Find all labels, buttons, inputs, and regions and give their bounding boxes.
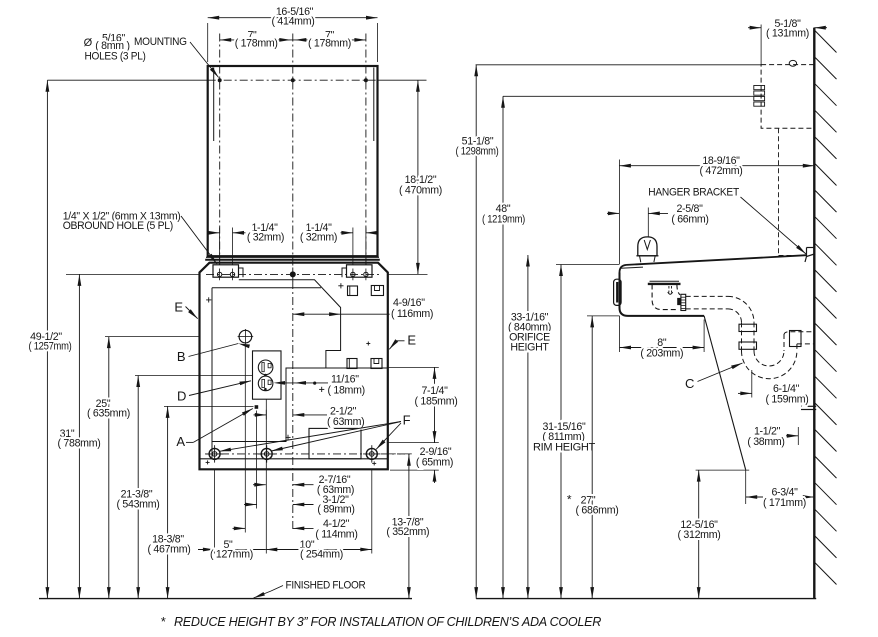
- svg-text:( 178mm): ( 178mm): [235, 38, 278, 50]
- extension lines 1-1/4 holes: [219, 228, 221, 265]
- svg-text:( 312mm): ( 312mm): [678, 529, 721, 541]
- anchor bolt centerline: [205, 453, 412, 455]
- svg-text:( 352mm): ( 352mm): [386, 526, 429, 538]
- knockout square upper-left: [348, 286, 358, 296]
- extension line outlet height: [135, 375, 253, 377]
- extension line cooler front up: [618, 160, 620, 265]
- hole B (water inlet): [239, 330, 252, 343]
- hanger bracket detail: [805, 254, 814, 262]
- extension line obround row right: [388, 273, 428, 275]
- svg-text:D: D: [177, 389, 186, 404]
- push pad: [614, 279, 622, 305]
- dimension 16-5/16in overall width: [208, 17, 378, 19]
- extension line 6-3/4: [745, 470, 747, 504]
- svg-text:( 63mm): ( 63mm): [327, 416, 364, 428]
- svg-text:REDUCE HEIGHT BY 3” FOR INSTAL: REDUCE HEIGHT BY 3” FOR INSTALLATION OF …: [174, 614, 601, 629]
- inner panel left line: [211, 288, 213, 459]
- dimension 7in right hole spacing: [293, 39, 366, 41]
- cooler cabinet (front view): [200, 263, 388, 470]
- svg-text:HOLES (3 PL): HOLES (3 PL): [85, 51, 146, 63]
- extension line hole B height: [105, 336, 200, 338]
- dimension 31-15/16in rim height: [560, 265, 562, 599]
- dimension 18-3/8in: [167, 406, 169, 598]
- svg-text:A: A: [176, 434, 185, 449]
- dimension 2-9/16in: [434, 430, 436, 443]
- back panel fold line right: [373, 68, 375, 142]
- svg-text:RIM HEIGHT: RIM HEIGHT: [533, 442, 596, 454]
- extension line bolt1 down: [213, 470, 215, 554]
- dimension 4-9/16in: [293, 313, 391, 315]
- svg-text:( 470mm): ( 470mm): [399, 184, 442, 196]
- dimension 25in: [108, 337, 110, 599]
- extension line 5-1/8: [760, 25, 762, 65]
- svg-text:( 1298mm): ( 1298mm): [456, 146, 499, 158]
- knockout square lower-right: [371, 359, 382, 369]
- dimension 18-1/2in panel height: [417, 80, 419, 274]
- extension line top hole row: [47, 79, 207, 81]
- svg-text:( 38mm): ( 38mm): [747, 436, 784, 448]
- svg-text:( 543mm): ( 543mm): [117, 499, 160, 511]
- wall hatching: [814, 30, 836, 53]
- extension line base bottom right: [390, 469, 439, 471]
- obround hole 5: [364, 272, 368, 276]
- inner panel top line: [212, 287, 321, 289]
- drain hole detail (dashed): [668, 286, 670, 293]
- drain adapter (solid): [677, 298, 681, 305]
- svg-text:( 203mm): ( 203mm): [640, 347, 683, 359]
- dimension 10in: [266, 549, 372, 551]
- dimension 31in: [78, 274, 80, 598]
- cooler front face (side view): [620, 273, 705, 316]
- flex conduit connector: [754, 86, 765, 90]
- svg-text:( 116mm): ( 116mm): [391, 308, 433, 320]
- anchor bolt F3: [366, 448, 377, 459]
- svg-text:HANGER BRACKET: HANGER BRACKET: [648, 186, 739, 198]
- conduit down from junction box (dashed): [778, 128, 780, 255]
- dimension 33-1/16in orifice height: [527, 255, 529, 599]
- dimension 2-7/16in: [253, 484, 266, 486]
- dimension 1-1/2in: [786, 435, 798, 437]
- svg-text:( 66mm): ( 66mm): [671, 214, 708, 226]
- conduit run to hanger bracket (dashed): [779, 255, 804, 257]
- mounting hole centerline 3: [365, 34, 367, 265]
- drain strainer flange: [648, 283, 681, 285]
- dimension 7-1/4in: [434, 367, 436, 442]
- knee clearance diagonal: [704, 316, 746, 470]
- dimension 6-3/4in: [746, 496, 763, 498]
- svg-text:( 65mm): ( 65mm): [416, 456, 453, 468]
- dimension 7in left hole spacing: [220, 39, 293, 41]
- extension line 8in right: [703, 320, 705, 353]
- dimension 27in: [591, 316, 593, 599]
- svg-text:( 131mm): ( 131mm): [766, 28, 809, 40]
- dimension 5in: [198, 549, 214, 551]
- extension line rim height: [556, 264, 620, 266]
- mounting hole dots: [218, 78, 222, 82]
- extension line hole A down: [256, 411, 258, 509]
- dimension 2-5/8in: [607, 212, 619, 214]
- inner stepped cutout line: [212, 280, 341, 442]
- dimension 18-9/16in: [619, 165, 814, 167]
- svg-text:( 18mm): ( 18mm): [328, 384, 365, 396]
- svg-text:F: F: [403, 413, 411, 428]
- obround hole 1: [217, 272, 221, 276]
- dimension 1-1/4in left obround: [208, 232, 220, 234]
- svg-text:B: B: [177, 349, 185, 364]
- svg-text:E: E: [174, 300, 183, 315]
- svg-text:C: C: [685, 376, 694, 391]
- extension line bubbler center: [647, 208, 649, 237]
- dimension 49-1/2in: [46, 80, 48, 598]
- mounting bracket left (obround holes): [213, 265, 239, 277]
- back panel (upper): [208, 66, 378, 256]
- dimension 3-1/2in: [244, 504, 257, 506]
- extension line 1-1/2: [797, 427, 799, 445]
- svg-text:( 32mm): ( 32mm): [300, 231, 337, 243]
- cabinet base plate top line: [200, 458, 388, 460]
- bottom access rectangle: [309, 428, 361, 458]
- svg-text:OBROUND HOLE (5 PL): OBROUND HOLE (5 PL): [63, 220, 173, 232]
- extension line 12-5/16 top: [696, 469, 750, 471]
- svg-text:( 686mm): ( 686mm): [576, 505, 619, 517]
- dimension 8in: [620, 347, 705, 349]
- svg-text:( 89mm): ( 89mm): [317, 504, 354, 516]
- svg-text:*: *: [567, 493, 572, 507]
- junction box knockout circle: [789, 60, 796, 66]
- bubbler: [638, 237, 657, 256]
- extension line hole B down: [244, 344, 246, 532]
- svg-text:( 127mm): ( 127mm): [210, 549, 253, 561]
- svg-text:( 788mm): ( 788mm): [58, 438, 101, 450]
- knockout square lower-left: [347, 359, 357, 369]
- back panel bottom lip double line: [206, 256, 379, 258]
- svg-text:( 32mm): ( 32mm): [247, 231, 284, 243]
- back panel fold line left: [213, 68, 215, 142]
- slip nut lower: [739, 342, 757, 349]
- svg-text:( 1257mm): ( 1257mm): [29, 341, 72, 353]
- dimension 2-1/2in: [254, 414, 267, 416]
- extension line 7-1/4 top: [388, 366, 439, 368]
- svg-text:( 414mm): ( 414mm): [272, 16, 315, 28]
- extension line obround row left: [66, 273, 200, 275]
- mounting hole centerline 2 / cooler centerline: [292, 34, 294, 268]
- svg-text:FINISHED FLOOR: FINISHED FLOOR: [286, 580, 367, 592]
- dimension 4-1/2in: [233, 527, 246, 529]
- inner shelf line right: [286, 367, 388, 369]
- dimension 1-1/4in right obround: [341, 232, 353, 234]
- extension line 8in left: [619, 316, 621, 352]
- extension line panel corners up: [207, 23, 209, 62]
- junction box (dashed): [761, 65, 814, 129]
- svg-text:E: E: [407, 333, 416, 348]
- dimension 13-7/8in: [408, 454, 410, 598]
- waste pipe vertical (dashed): [741, 322, 743, 351]
- obround hole center: [290, 271, 296, 277]
- dimension 51-1/8in: [475, 65, 477, 599]
- dimension 48in: [502, 96, 504, 598]
- dimension 12-5/16in: [698, 470, 700, 598]
- extension line bolt3 down: [371, 470, 373, 554]
- trap outlet riser (dashed): [783, 334, 785, 351]
- extension line conduit connector: [503, 95, 754, 97]
- dimension 11/16in: [281, 382, 328, 384]
- P-trap U bend (dashed): [742, 351, 797, 379]
- extension line bolt row right: [388, 453, 414, 455]
- electrical outlet D: [253, 351, 282, 399]
- svg-text:( 171mm): ( 171mm): [763, 497, 806, 509]
- mounting bracket right (obround holes): [347, 265, 373, 277]
- extension line cooler bottom: [587, 315, 620, 317]
- obround hole 2: [230, 272, 234, 276]
- svg-text:Ø: Ø: [84, 37, 93, 49]
- svg-text:( 254mm): ( 254mm): [300, 549, 343, 561]
- wall line: [813, 28, 815, 599]
- extension line junction box top: [476, 64, 761, 66]
- svg-text:( 467mm): ( 467mm): [148, 544, 191, 556]
- extension line inner bottom right: [388, 442, 439, 444]
- anchor bolt F2: [261, 448, 272, 459]
- svg-text:( 159mm): ( 159mm): [766, 393, 809, 405]
- trap arm to wall (dashed): [784, 332, 814, 335]
- hole A (drain): [255, 405, 259, 409]
- drain basin (dashed): [652, 285, 677, 310]
- mounting hole centerline 1: [219, 34, 221, 265]
- anchor bolt F1: [209, 448, 220, 459]
- obround hole centerline: [206, 273, 380, 275]
- trap centerline: [751, 370, 753, 398]
- dimension 6-1/4in: [738, 392, 752, 394]
- svg-text:( 185mm): ( 185mm): [415, 395, 458, 407]
- svg-text:( 472mm): ( 472mm): [700, 165, 743, 177]
- dimension 5-1/8in: [748, 27, 761, 29]
- svg-text:( 1219mm): ( 1219mm): [482, 214, 525, 226]
- obround hole 4: [351, 272, 355, 276]
- trap arm slip nut: [790, 331, 802, 347]
- finished floor line: [39, 598, 412, 600]
- svg-text:HEIGHT: HEIGHT: [510, 342, 549, 354]
- weld stud marks: [206, 299, 211, 301]
- svg-text:( 635mm): ( 635mm): [87, 408, 130, 420]
- svg-text:( 178mm): ( 178mm): [308, 38, 351, 50]
- extension line hole A height: [164, 405, 254, 407]
- waste pipe elbow (dashed): [728, 296, 754, 322]
- svg-text:MOUNTING: MOUNTING: [134, 36, 187, 48]
- wall escutcheon: [801, 405, 816, 407]
- extension line outlet center down: [265, 399, 267, 553]
- cooler top surface (side view): [627, 255, 807, 265]
- slip nut upper: [739, 324, 757, 331]
- dimension 21-3/8in: [137, 376, 139, 599]
- waste pipe horizontal (dashed): [686, 295, 728, 297]
- knockout square upper-right: [371, 286, 383, 296]
- svg-text:( 114mm): ( 114mm): [315, 528, 357, 540]
